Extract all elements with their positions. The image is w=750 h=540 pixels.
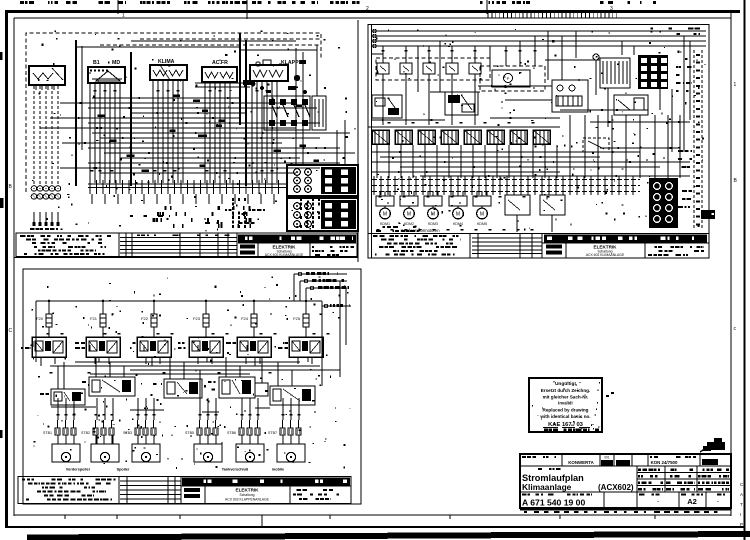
svg-text:Invalid!: Invalid! (558, 401, 573, 406)
P2 motors group (376, 191, 491, 226)
svg-text:ACX 602 KLIMAANLAGE: ACX 602 KLIMAANLAGE (265, 253, 304, 257)
svg-text:001: 001 (604, 456, 610, 460)
svg-text:ACX 602 KLIMAANLAGE: ACX 602 KLIMAANLAGE (586, 253, 625, 257)
P2 fuse row (dashed box) (376, 46, 490, 125)
svg-text:3: 3 (610, 6, 613, 12)
P2 scan noise (376, 29, 706, 231)
svg-text:M: M (407, 212, 411, 218)
svg-text:F24: F24 (241, 316, 249, 321)
svg-text:KONWERTA: KONWERTA (568, 460, 594, 465)
P2 relay K6 box (445, 92, 478, 115)
P1 title block ELEKTRIK cell (238, 243, 356, 257)
svg-text:B1: B1 (93, 60, 100, 66)
svg-text:Spoiler: Spoiler (117, 468, 130, 472)
svg-text:STB2: STB2 (81, 431, 90, 435)
svg-text:2: 2 (366, 6, 369, 12)
page frame: cut-off text fragments along top edge (20, 1, 656, 4)
P3 routing wires between relay rows (36, 281, 346, 412)
P1 relay block K1 (circles + contact grid) (287, 165, 358, 196)
P2 resistor pack box (600, 58, 630, 88)
P2 right side pin label stacks (676, 58, 692, 208)
P2 right pin-number column (694, 50, 702, 230)
P1 KLAPPE junction blobs (243, 60, 307, 94)
sensor box S1 (left component with contacts) (29, 66, 65, 90)
svg-text:F22: F22 (141, 316, 149, 321)
P2 small label box on right margin (701, 210, 715, 219)
svg-text:M: M (431, 212, 435, 218)
svg-text:-: - (717, 499, 719, 505)
svg-text:I: I (740, 512, 741, 517)
P1 connector strip X1 (88, 180, 286, 194)
panel P1 right border (357, 20, 359, 262)
P2 routing wires horizontal mid (372, 54, 690, 177)
svg-text:P: P (507, 76, 510, 81)
P2 title block header bar (544, 235, 707, 243)
P2 bottom-left text marks above title block (376, 226, 534, 232)
P1 title block revision table (120, 233, 237, 257)
svg-text:KLIMA: KLIMA (158, 59, 175, 65)
main title block document number row (522, 492, 725, 508)
P2 connector row (hatched plugs) (368, 127, 560, 144)
P2 connector strip X2 (dashed with ticks) (372, 176, 640, 195)
page frame: bottom outer border line (5, 526, 744, 528)
page frame: zone letters on margins (9, 82, 738, 334)
svg-text:STB6: STB6 (227, 431, 236, 435)
P1 left connector group (plug symbols) (30, 186, 61, 230)
svg-text:A2: A2 (687, 497, 697, 506)
svg-text:Schaltung: Schaltung (239, 493, 254, 497)
P1 routing wires horizontal (40, 95, 355, 174)
P1 title block frame (16, 233, 357, 257)
svg-text:Ersetzt durch Zeichng.: Ersetzt durch Zeichng. (541, 388, 591, 393)
P2 title block header Kondensatormotoren (400, 228, 440, 233)
svg-text:P: P (740, 522, 743, 527)
P1 dashed sensor wires (left) (34, 86, 58, 184)
P3 title block frame (18, 477, 351, 504)
svg-text:Klimaanlage: Klimaanlage (522, 482, 572, 492)
P1 wire fan from components to connector strip (90, 80, 277, 183)
page frame: inner left border line (13, 18, 15, 516)
P1 dashed enclosure (dashed wire boundary) (26, 33, 321, 192)
svg-text:F21: F21 (90, 316, 98, 321)
main title block approval table (637, 466, 731, 492)
page frame: left margin scan artifacts (0, 52, 4, 438)
svg-text:A: A (740, 492, 743, 497)
P3 actuator motors (52, 444, 305, 462)
P1 scan noise (32, 30, 356, 231)
P1 trunk wires horizontal top (76, 41, 317, 87)
P1 title block notes text (20, 235, 111, 255)
P3 fuses F20-F25 (36, 301, 309, 337)
P2 vertical drops to strip (377, 115, 680, 178)
main title block row 1 cells (520, 454, 731, 466)
P3 connector groups STB (43, 420, 301, 444)
P1 relay block K2 (circles + contact grid) (287, 198, 358, 231)
page frame: scanner black band at bottom edge (27, 531, 750, 540)
svg-text:MD: MD (112, 60, 120, 66)
svg-text:T: T (740, 502, 743, 507)
P2 aux box (614, 95, 648, 115)
svg-text:Replaced by drawing: Replaced by drawing (543, 408, 589, 413)
svg-text:mobile: mobile (272, 468, 284, 472)
P2 mid verticals (418, 31, 690, 152)
svg-text:F23: F23 (193, 316, 201, 321)
svg-text:Vorderspoiler: Vorderspoiler (66, 468, 91, 472)
main title block drawing title (520, 466, 731, 492)
switch AC/FR (202, 60, 237, 82)
P3 title block notes text (22, 479, 116, 501)
svg-text:F20: F20 (36, 316, 44, 321)
page frame: inner top border line (14, 17, 731, 19)
P3 extra column wires (33, 333, 330, 444)
P3 main bus wire (36, 300, 322, 306)
svg-text:M: M (480, 212, 484, 218)
svg-text:KDM4: KDM4 (453, 222, 463, 226)
P3 title block ELEKTRIK cell (181, 486, 351, 504)
svg-text:AC.FR: AC.FR (212, 60, 228, 66)
svg-text:STB5: STB5 (185, 431, 194, 435)
page frame: outer left border line (5, 10, 8, 528)
svg-text:mit gleicher Sach-Nr.: mit gleicher Sach-Nr. (543, 395, 589, 400)
page frame: outer top border line (5, 10, 740, 13)
svg-text:STB3: STB3 (123, 431, 132, 435)
svg-text:F25: F25 (293, 316, 301, 321)
P1 connector stubs and pin labels below strip (92, 194, 320, 228)
page frame: bottom inner border line with ticks (14, 515, 731, 527)
svg-text:(ACX602): (ACX602) (598, 483, 634, 492)
page frame: right page-edge line (744, 0, 746, 540)
invalidation stamp box (529, 378, 614, 432)
svg-text:M: M (383, 212, 387, 218)
P1 switch bank (flap control contacts) (264, 96, 326, 130)
svg-text:A 671 540 19 00: A 671 540 19 00 (522, 498, 585, 508)
page frame: ruler tick marks on top border (122, 6, 617, 19)
panel P1 bottom border (14, 257, 358, 259)
svg-text:KDM2: KDM2 (404, 222, 414, 226)
main title block frame (520, 454, 731, 508)
svg-text:STB1: STB1 (43, 431, 52, 435)
switch KLIMA (150, 59, 187, 80)
svg-text:with identical basic no.: with identical basic no. (539, 414, 590, 419)
P2 relay block dark box (638, 55, 668, 89)
P2 title block revision table (472, 234, 542, 259)
svg-text:1: 1 (734, 82, 737, 88)
switch KLAPPE (250, 60, 303, 81)
P2 relay K5 box (372, 95, 402, 118)
svg-text:M: M (456, 212, 460, 218)
P2 dashed aux box (583, 138, 609, 152)
control unit B1 / MD (88, 60, 125, 83)
P2 title block frame (368, 234, 709, 259)
svg-text:ELEKTRIK: ELEKTRIK (236, 488, 260, 493)
svg-text:Ungültig!: Ungültig! (555, 381, 576, 387)
P2 power bus lines 30/15/31/X (372, 28, 706, 48)
svg-text:KON 24/7500: KON 24/7500 (651, 460, 678, 465)
P2 pin label marks (379, 50, 550, 198)
page frame: right inner border line (730, 11, 732, 516)
signature scribble above title block (700, 438, 725, 452)
P3 scan noise (31, 276, 351, 469)
P2 title block ELEKTRIK cell (542, 243, 709, 258)
svg-text:STB7: STB7 (268, 431, 277, 435)
P2 title block notes text (373, 235, 461, 256)
P1 trunk wires vertical (76, 33, 345, 186)
P3 title block revision table (120, 477, 181, 504)
P2 dark connector block right (649, 178, 678, 228)
P3 title block header bar (182, 478, 350, 486)
P3 relay row 1 (6 relays) (21, 337, 323, 364)
P1 title block header bar (238, 235, 356, 243)
P2 control module box (552, 80, 588, 112)
P2 aux relay boxes near motors (505, 195, 565, 232)
svg-text:-: - (657, 499, 659, 505)
svg-text:Tankverschluß: Tankverschluß (222, 468, 249, 472)
P2 pressure switch (dashed box) (480, 66, 545, 91)
svg-text:KDM5: KDM5 (477, 222, 487, 226)
P3 relay row 2 (5 relays) (40, 377, 315, 405)
P3 supply terminal lines (KLEMME) (294, 272, 351, 308)
P2 junction circle (593, 54, 599, 60)
main title block bottom band (520, 510, 731, 514)
panel P2 border (368, 25, 709, 259)
svg-text:C: C (9, 328, 13, 334)
svg-text:KDM3: KDM3 (428, 222, 438, 226)
svg-text:1: 1 (122, 13, 125, 19)
page frame: vertical fold ticks crossing top border (118, 0, 487, 19)
svg-text:ACX 602 KLAPPENANLAGE: ACX 602 KLAPPENANLAGE (225, 498, 270, 502)
page frame: rotated text at right page edge (740, 482, 744, 527)
P3 motor group labels (66, 468, 284, 472)
panel P3 border (23, 269, 361, 504)
svg-text:Kondensatormotoren: Kondensatormotoren (400, 228, 440, 233)
P3 wires from relays to connectors (57, 398, 301, 420)
svg-text:KDM1: KDM1 (380, 222, 390, 226)
